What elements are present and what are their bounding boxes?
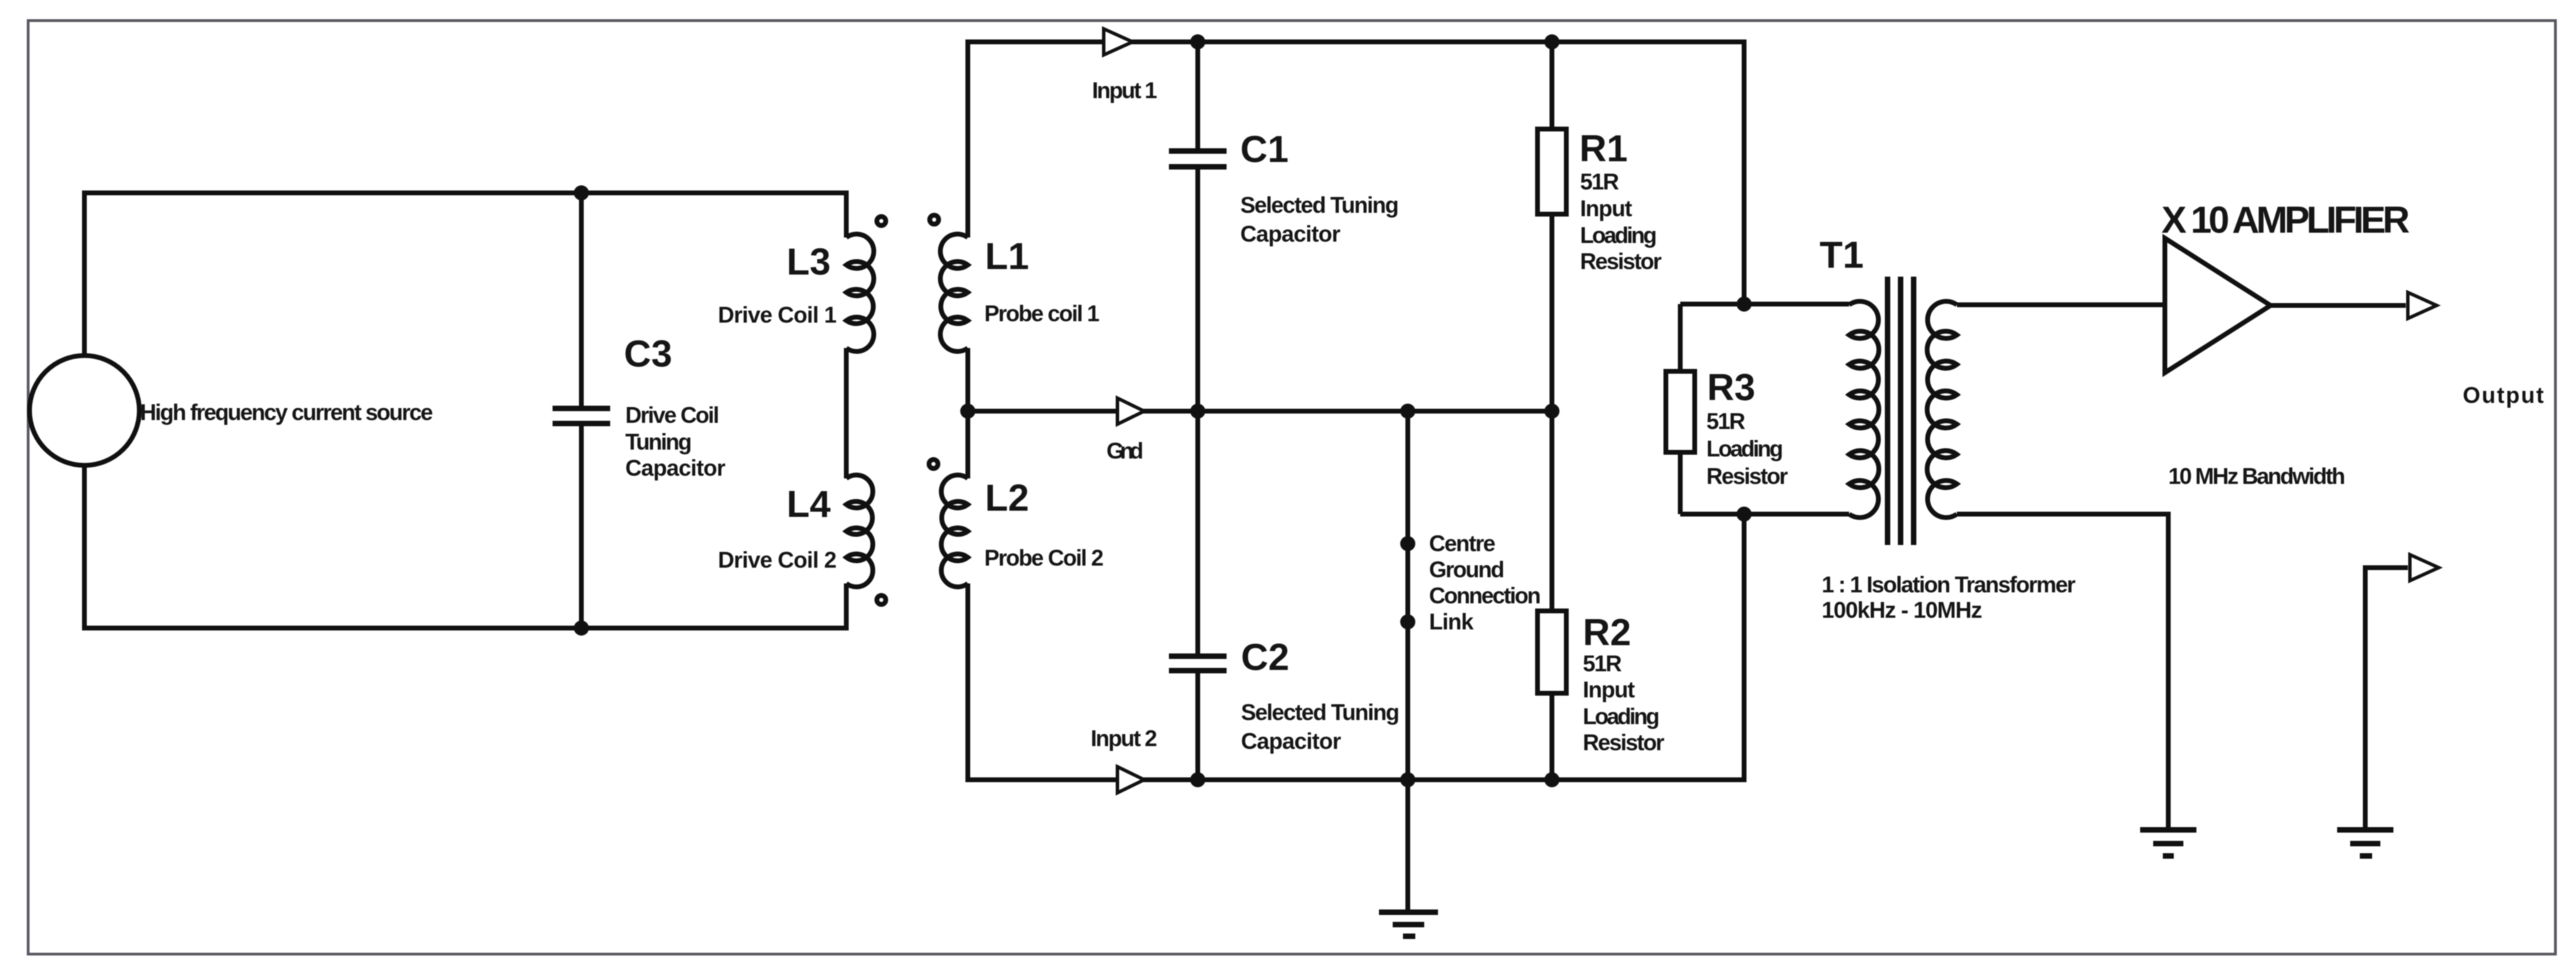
svg-text:Ground: Ground — [1429, 557, 1505, 582]
svg-text:L3: L3 — [787, 240, 831, 283]
svg-text:Capacitor: Capacitor — [1241, 728, 1341, 754]
ground under secondary — [2140, 827, 2196, 833]
phase dot L3 — [877, 217, 886, 226]
svg-text:High frequency current source: High frequency current source — [140, 399, 433, 425]
svg-text:51R: 51R — [1583, 651, 1622, 676]
wire: T1 primary loop top — [1680, 302, 1849, 307]
svg-text:L1: L1 — [985, 235, 1029, 277]
capacitor C3 — [579, 193, 584, 628]
inductor L4 — [846, 475, 873, 587]
current source: high frequency current source — [30, 356, 139, 465]
transformer T1 core — [1888, 277, 1914, 545]
svg-text:Centre: Centre — [1429, 531, 1496, 556]
svg-text:L2: L2 — [985, 476, 1029, 519]
arrow Output — [2408, 292, 2437, 318]
arrows (open triangles) — [1104, 29, 2439, 793]
wire: Gnd rail — [968, 409, 1552, 414]
svg-text:C1: C1 — [1240, 128, 1288, 170]
arrow Gnd — [1117, 398, 1144, 424]
wire: amplifier output — [2271, 303, 2406, 308]
wire: output ground stub — [2365, 568, 2408, 830]
svg-text:Output: Output — [2463, 382, 2544, 408]
junction: C1 top on Input 1 rail — [1190, 34, 1205, 49]
junction: T1 loop top node — [1737, 297, 1752, 312]
svg-text:R1: R1 — [1579, 127, 1627, 170]
svg-text:Input: Input — [1580, 196, 1632, 221]
resistor R3 branch — [1678, 304, 1683, 514]
wire: centre ground connection link — [1406, 411, 1411, 912]
svg-text:R2: R2 — [1583, 611, 1631, 653]
inductor L3 — [846, 234, 874, 351]
junction: Gnd tap at L1/L2 midpoint — [960, 404, 975, 419]
wire: T1 primary loop bottom — [1680, 512, 1849, 517]
svg-text:R3: R3 — [1707, 366, 1755, 408]
phase dot L4 — [877, 596, 886, 605]
junction: C1/C2 on Gnd rail — [1190, 404, 1205, 419]
capacitor C1 — [1196, 42, 1200, 653]
wire: L3 bottom to L4 top — [844, 348, 849, 478]
svg-text:Input 1: Input 1 — [1092, 78, 1157, 103]
resistor R2 — [1550, 411, 1555, 780]
svg-text:Resistor: Resistor — [1583, 730, 1664, 755]
svg-text:Selected Tuning: Selected Tuning — [1241, 699, 1400, 725]
svg-text:C2: C2 — [1241, 636, 1289, 678]
svg-text:Drive Coil 1: Drive Coil 1 — [718, 302, 837, 327]
wire: secondary bottom to ground — [1957, 514, 2168, 830]
wire: source top to top rail to L3 top — [84, 193, 846, 356]
arrow bottom right — [2410, 555, 2439, 581]
svg-text:100kHz - 10MHz: 100kHz - 10MHz — [1822, 597, 1982, 623]
wire: L1 top to Input 1 rail down to T1 loop — [968, 42, 1744, 304]
svg-text:Loading: Loading — [1706, 436, 1783, 461]
svg-text:Loading: Loading — [1580, 222, 1657, 248]
svg-text:Capacitor: Capacitor — [625, 455, 726, 480]
svg-text:Input 2: Input 2 — [1091, 726, 1157, 751]
junction: centre link on Input 2 rail — [1400, 772, 1415, 787]
node: centre ground link lower terminal — [1400, 614, 1415, 629]
svg-text:Tuning: Tuning — [625, 429, 692, 454]
phase dot L1 — [930, 216, 939, 224]
ground under output stub — [2337, 827, 2393, 833]
arrow Input 2 — [1117, 767, 1144, 793]
svg-text:51R: 51R — [1706, 408, 1745, 434]
resistor R1 — [1550, 42, 1555, 411]
svg-text:Drive Coil: Drive Coil — [625, 402, 719, 428]
junction: C2 bottom on Input 2 rail — [1190, 772, 1205, 787]
transformer T1 secondary coil — [1927, 301, 1957, 518]
svg-text:Input: Input — [1583, 677, 1635, 702]
svg-text:C3: C3 — [624, 332, 672, 375]
junction: T1 loop bottom node — [1737, 507, 1752, 522]
svg-text:L4: L4 — [787, 483, 831, 525]
svg-text:Gnd: Gnd — [1106, 438, 1144, 463]
op-amp X10 amplifier — [2165, 238, 2271, 373]
svg-text:10 MHz Bandwidth: 10 MHz Bandwidth — [2168, 463, 2345, 489]
wire: L1 bottom to L2 top — [966, 348, 971, 478]
junction: C3 top node — [574, 185, 589, 200]
capacitor C2 — [1196, 673, 1200, 780]
svg-text:Capacitor: Capacitor — [1240, 221, 1341, 246]
junction: R1 top on Input 1 rail — [1544, 34, 1559, 49]
svg-text:51R: 51R — [1580, 169, 1619, 194]
svg-text:Resistor: Resistor — [1706, 463, 1788, 489]
svg-text:Probe coil 1: Probe coil 1 — [984, 301, 1100, 326]
svg-text:Resistor: Resistor — [1580, 248, 1662, 274]
junction: R2 bottom on Input 2 rail — [1544, 772, 1559, 787]
phase dot L2 — [929, 460, 938, 469]
svg-text:Probe Coil 2: Probe Coil 2 — [984, 545, 1104, 570]
inductor L1 — [940, 234, 968, 351]
inductor L2 — [941, 475, 968, 587]
node: centre ground link upper terminal — [1400, 536, 1415, 551]
svg-text:Connection: Connection — [1429, 583, 1541, 608]
svg-text:T1: T1 — [1820, 233, 1864, 276]
ground under centre link — [1379, 909, 1438, 915]
svg-text:Loading: Loading — [1583, 704, 1660, 729]
junction: R1/R2 on Gnd rail — [1544, 404, 1559, 419]
junction: C3 bottom node — [574, 621, 589, 636]
svg-text:Link: Link — [1429, 609, 1474, 634]
svg-text:Drive Coil 2: Drive Coil 2 — [718, 547, 837, 572]
wire: L2 bottom to Input 2 rail up to T1 loop bottom — [968, 514, 1744, 780]
junction: centre link on Gnd rail — [1400, 404, 1415, 419]
svg-text:1 : 1 Isolation Transformer: 1 : 1 Isolation Transformer — [1822, 572, 2076, 597]
arrow Input 1 — [1104, 29, 1133, 55]
svg-text:Selected Tuning: Selected Tuning — [1240, 192, 1399, 218]
wire: secondary top to amplifier — [1957, 303, 2165, 308]
svg-text:X 10 AMPLIFIER: X 10 AMPLIFIER — [2161, 198, 2410, 241]
wire: source bottom to bottom rail to L4 bottom — [84, 465, 846, 628]
transformer T1 primary coil — [1849, 301, 1879, 518]
